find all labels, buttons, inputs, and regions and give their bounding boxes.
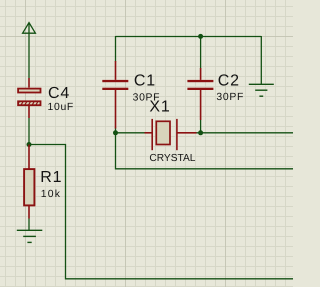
wire node to crystal left (116, 132, 145, 134)
svg-text:CRYSTAL: CRYSTAL (149, 153, 195, 164)
C2 top pin (200, 68, 202, 80)
svg-text:R1: R1 (40, 169, 62, 186)
X1 body (156, 121, 170, 144)
junction node crystal right / C2 (198, 130, 203, 135)
C2 top plate (187, 80, 213, 82)
wire crystal right to right edge (197, 132, 294, 134)
C4 top pin (28, 78, 30, 88)
wire top to C1 (115, 36, 117, 62)
svg-text:10k: 10k (41, 189, 61, 200)
wire top to C2 (200, 36, 202, 69)
wire C1 bottom to node (115, 128, 117, 133)
svg-text:C2: C2 (218, 73, 240, 90)
svg-text:10uF: 10uF (48, 102, 74, 113)
capacitor C1 (102, 61, 128, 129)
power arrow symbol (23, 23, 36, 34)
wire R1 to ground stub (28, 219, 30, 231)
wire top to right ground (260, 36, 262, 84)
C2 bottom pin (200, 90, 202, 120)
svg-text:C4: C4 (48, 85, 70, 102)
X1 right pin (177, 132, 197, 134)
X1 right plate (176, 119, 178, 150)
power symbol lead wire (28, 23, 30, 78)
capacitor C4 (electrolytic) (16, 78, 43, 118)
C1 bottom plate (102, 88, 128, 90)
crystal X1 (145, 119, 197, 150)
X1 left plate (151, 119, 153, 150)
R1 top pin (28, 145, 30, 170)
svg-text:X1: X1 (149, 98, 170, 115)
svg-text:30PF: 30PF (216, 92, 244, 103)
C4 bottom plate (hatched) (16, 100, 43, 108)
C1 bottom pin (115, 90, 117, 129)
junction node top wire / C2 (198, 34, 203, 39)
C1 top plate (102, 80, 128, 82)
wire node down and right rail (116, 133, 294, 169)
C1 top pin (115, 61, 117, 80)
top horizontal wire (116, 36, 262, 38)
ground under R1 (17, 230, 43, 242)
ground at top right (249, 84, 274, 96)
wire node to bottom-right rail (29, 145, 293, 279)
wire C4 bottom to node (28, 118, 30, 145)
wire C2 bottom to node (200, 120, 202, 133)
junction node crystal left / C1 (113, 130, 118, 135)
C2 bottom plate (187, 88, 213, 90)
capacitor C2 (187, 68, 213, 120)
R1 body (24, 169, 34, 205)
C4 top plate (18, 89, 40, 93)
C4 bottom pin (28, 106, 30, 118)
svg-text:C1: C1 (134, 73, 156, 90)
junction node at C4/R1 (27, 142, 32, 147)
X1 left pin (145, 132, 152, 134)
R1 bottom pin (28, 206, 30, 219)
resistor R1 (24, 145, 34, 219)
